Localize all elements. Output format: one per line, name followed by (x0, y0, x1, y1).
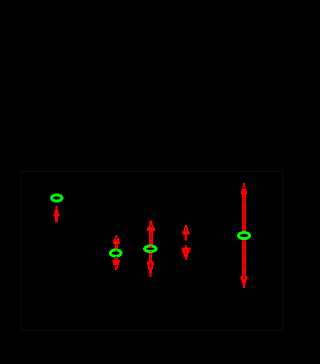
shaft nub inside ellipse E3 top (150, 246, 152, 248)
red arrow A1 up (point 1) (54, 206, 60, 222)
error ellipse E2 (point 2) (110, 250, 121, 256)
shaft nub inside ellipse E2 bottom (116, 256, 118, 257)
error ellipse E5 (point 5) (238, 233, 249, 239)
shaft nub inside ellipse E2 top (116, 250, 118, 251)
error ellipse E3 (point 3) (145, 246, 157, 252)
red arrow A5 up (point 5) (241, 183, 247, 231)
red arrow A4 down (point 4) (182, 245, 191, 259)
red arrow A4 up (point 4) (182, 225, 190, 240)
red arrow A5 down (point 5) (241, 240, 248, 288)
error ellipse E1 (point 1) (52, 195, 62, 201)
red arrow A2 down (point 2) (112, 258, 120, 270)
plot frame (very faint) (21, 172, 283, 331)
shaft nub inside ellipse E3 bottom (150, 251, 152, 252)
red arrow A2 up (point 2) (113, 236, 120, 250)
red arrow A3 up (point 3) (147, 221, 155, 245)
red arrow A3 down (point 3) (147, 253, 154, 277)
